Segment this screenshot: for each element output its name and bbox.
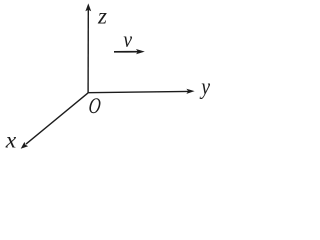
- svg-text:z: z: [97, 4, 107, 29]
- svg-text:y: y: [199, 74, 210, 100]
- svg-text:x: x: [5, 128, 17, 153]
- svg-text:O: O: [87, 94, 102, 119]
- svg-text:v: v: [123, 26, 132, 52]
